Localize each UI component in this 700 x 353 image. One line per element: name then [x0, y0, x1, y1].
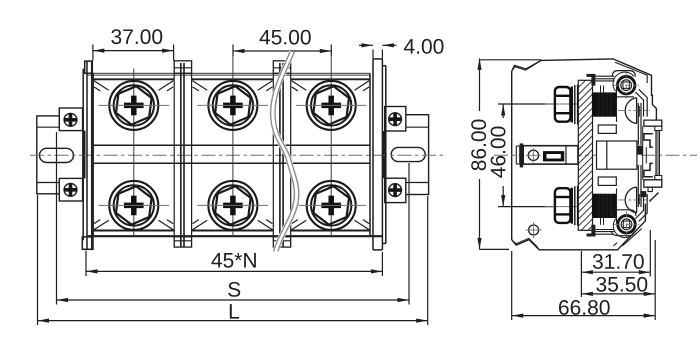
right lower bracket screw cross	[389, 184, 402, 197]
break wavy line halo	[273, 52, 297, 252]
break wavy line strand 1	[271, 52, 295, 252]
upper D flat side	[636, 98, 638, 124]
lower D shape	[625, 187, 636, 213]
terminal screw A3	[296, 81, 367, 130]
dimension 45*N	[86, 251, 382, 277]
clamp top black post	[591, 76, 595, 86]
dimension 35.50	[581, 240, 655, 320]
lower block neck lines	[601, 218, 604, 225]
top-right pocket chevrons	[636, 89, 648, 116]
terminal screw B2	[198, 181, 269, 230]
upper hex bolt head	[555, 87, 572, 123]
left DIN rail end	[37, 116, 83, 194]
body middle band lower line	[93, 162, 370, 164]
right rail oval slot	[391, 147, 425, 161]
bottom-right pocket hood	[612, 210, 636, 216]
terminal screw B3	[296, 181, 367, 230]
right end wall / end plate 4.00	[370, 59, 386, 250]
dimension 66.80	[512, 251, 656, 320]
left rail edge dark strip	[83, 131, 86, 179]
horizontal centerline side view	[494, 154, 697, 156]
dimension L	[38, 195, 428, 325]
terminal screw B1	[99, 181, 170, 230]
upper block neck lines	[601, 86, 604, 93]
body top gray band line 2	[87, 75, 370, 77]
bottom-right screw	[614, 212, 640, 238]
clamp bottom cap	[587, 234, 596, 237]
lower D centerline	[618, 199, 650, 201]
central latch assembly	[516, 143, 578, 167]
lower hex bolt head	[555, 188, 572, 224]
dimension 4.00	[359, 45, 397, 58]
left lower bracket	[59, 178, 82, 201]
rail bottom black corner	[640, 191, 646, 197]
right upper bracket	[385, 107, 406, 132]
upper D shape	[625, 98, 636, 124]
right end plate dark strip	[383, 131, 386, 178]
side bottom-right chamfer inner line	[614, 229, 642, 246]
bottom-right screw boss arc	[613, 218, 634, 237]
side body bottom-left beak inner line	[513, 238, 539, 247]
body bottom line	[87, 235, 382, 237]
side body top-left beak inner line	[513, 61, 541, 70]
bottom-right under-circle line	[611, 232, 630, 236]
clamp bottom bar	[593, 230, 615, 235]
right lower bracket	[385, 178, 406, 202]
top-right screw	[614, 73, 640, 99]
rail latch black block	[637, 146, 643, 155]
lower thread block	[592, 188, 617, 223]
body inner wall at rail	[638, 103, 641, 207]
DIN rail bottom notch	[648, 187, 652, 191]
right rail ledge lines	[406, 127, 429, 182]
left upper bracket screw cross	[64, 114, 77, 127]
clamp hatched plate	[578, 80, 592, 230]
right DIN rail end	[385, 115, 429, 195]
clamp top bar	[593, 76, 615, 81]
horizontal centerline	[30, 154, 446, 156]
cell center vertical lines	[134, 56, 331, 236]
latch hole circle	[526, 148, 541, 163]
DIN rail channel left edge	[642, 126, 644, 180]
DIN rail mid vertical	[645, 147, 647, 163]
DIN rail lower C step	[644, 163, 653, 176]
lower bolt centerline	[545, 206, 578, 208]
side body outline	[512, 59, 659, 250]
dimension 31.70	[581, 230, 650, 297]
left lower bracket screw cross	[64, 184, 77, 197]
upper thread block	[592, 87, 617, 122]
top-right under-circle line	[615, 96, 635, 98]
left end wall	[82, 61, 93, 249]
cell corner chamfers	[94, 81, 369, 230]
upper bolt centerline	[545, 103, 578, 105]
top-right pocket hood	[612, 71, 635, 77]
DIN rail top lip	[655, 126, 662, 130]
dimension 45.00	[233, 45, 331, 57]
left upper bracket	[59, 108, 82, 131]
cell ceilings and floors	[93, 79, 370, 230]
divider wall 1	[174, 61, 191, 247]
DIN rail upper C step	[644, 134, 653, 147]
DIN rail bottom flange	[644, 180, 662, 187]
clamp bottom black post	[591, 225, 595, 235]
lower D flat side	[636, 187, 638, 213]
break wavy line strand 2	[275, 52, 299, 252]
DIN rail top flange	[644, 120, 662, 126]
dimension 86.00	[480, 58, 542, 249]
side top-right chamfer inner line	[615, 62, 647, 83]
divider wall 2	[273, 61, 290, 247]
left rail oval slot	[40, 148, 74, 162]
latch dark window	[543, 151, 564, 161]
left rail ledge lines	[37, 127, 60, 182]
small screw bottom-left	[526, 222, 542, 238]
central big box	[597, 141, 637, 169]
terminal screw A2	[198, 81, 269, 130]
central white box upper	[598, 125, 616, 133]
DIN rail bottom lip	[655, 176, 662, 180]
top-right screw boss arc	[613, 72, 634, 91]
right upper bracket screw cross	[389, 113, 402, 126]
upper D centerline	[618, 110, 650, 112]
DIN rail web	[656, 131, 660, 180]
dimension S	[57, 132, 410, 305]
central white box lower	[598, 177, 616, 185]
terminal screw A1	[99, 81, 170, 130]
dimension 46.00	[498, 104, 553, 207]
dimension 37.00	[93, 45, 174, 61]
body middle band upper line	[93, 144, 370, 146]
body top gray band line 1	[87, 73, 370, 75]
clamp top cap	[587, 74, 596, 77]
bottom-right pocket chevrons	[636, 194, 648, 221]
